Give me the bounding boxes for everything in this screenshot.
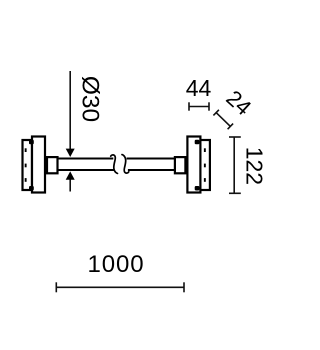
left end-cap group xyxy=(23,137,46,193)
break curve left xyxy=(111,155,118,173)
dim 24 line xyxy=(213,110,233,129)
right body rect xyxy=(187,137,200,193)
dim Ø30 arrow down xyxy=(66,149,75,157)
left back plate xyxy=(23,140,33,190)
dim 1000 line xyxy=(56,282,184,292)
dim Ø30 leader bottom xyxy=(69,179,71,192)
left screws xyxy=(29,140,34,145)
svg-text:122: 122 xyxy=(241,147,267,185)
dim Ø30 leader top xyxy=(69,71,71,192)
dim Ø30 arrow up xyxy=(66,171,75,179)
right back plate xyxy=(200,140,210,190)
right plate hole marks xyxy=(195,140,206,191)
tube left segment top xyxy=(58,157,114,159)
right screws xyxy=(195,140,200,145)
left collar xyxy=(47,157,58,173)
dim 44 line xyxy=(189,102,209,110)
tube left segment bottom xyxy=(58,169,115,171)
tube right segment top xyxy=(127,157,175,159)
svg-text:44: 44 xyxy=(186,75,212,101)
left step ring xyxy=(44,158,48,171)
dim 122 line xyxy=(229,137,241,193)
left body rect xyxy=(32,137,45,193)
break curve right xyxy=(122,155,129,173)
right end-cap group (mirror) xyxy=(175,137,210,193)
right step ring xyxy=(184,158,188,171)
tube right segment bottom xyxy=(128,169,175,171)
tube lines xyxy=(58,159,175,171)
svg-text:1000: 1000 xyxy=(88,251,145,278)
svg-text:Ø30: Ø30 xyxy=(77,76,104,122)
right collar xyxy=(175,157,186,173)
left plate hole marks xyxy=(25,140,48,191)
